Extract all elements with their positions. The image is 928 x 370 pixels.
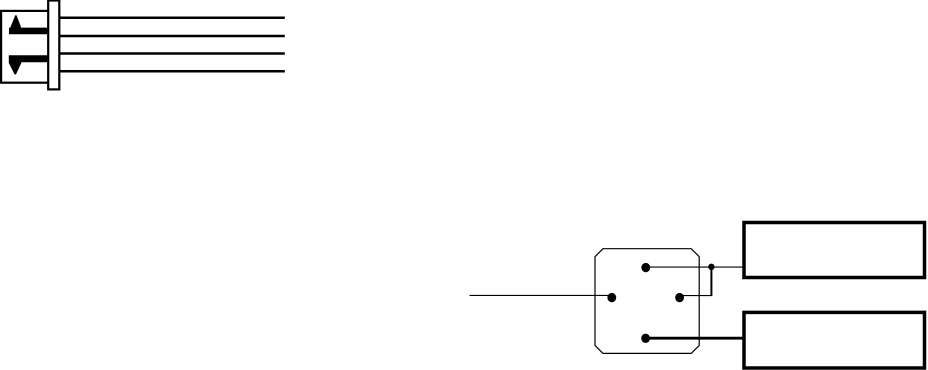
wire 3 xyxy=(59,52,284,55)
pin dot left xyxy=(607,293,616,302)
wire left input xyxy=(470,294,612,296)
pin dot top xyxy=(641,263,650,272)
wire 4 xyxy=(59,70,284,73)
component U1 body xyxy=(595,249,699,354)
wire 1 xyxy=(59,17,284,20)
block box 1 xyxy=(744,223,925,278)
junction dot xyxy=(708,264,714,270)
wire right pin vertical xyxy=(710,267,712,296)
connector J1 arrow up xyxy=(9,15,49,34)
wire top pin to box 1 xyxy=(646,266,744,268)
wire right pin horizontal xyxy=(680,295,712,297)
connector J1 body xyxy=(1,11,51,83)
pin dot bottom xyxy=(641,334,650,343)
block box 2 xyxy=(744,312,925,368)
wire 2 xyxy=(59,35,284,38)
wire bottom pin to box 2 xyxy=(646,337,743,340)
connector J1 arrow down xyxy=(9,55,49,74)
pin dot right xyxy=(675,293,684,302)
connector J1 header bar xyxy=(48,1,59,90)
